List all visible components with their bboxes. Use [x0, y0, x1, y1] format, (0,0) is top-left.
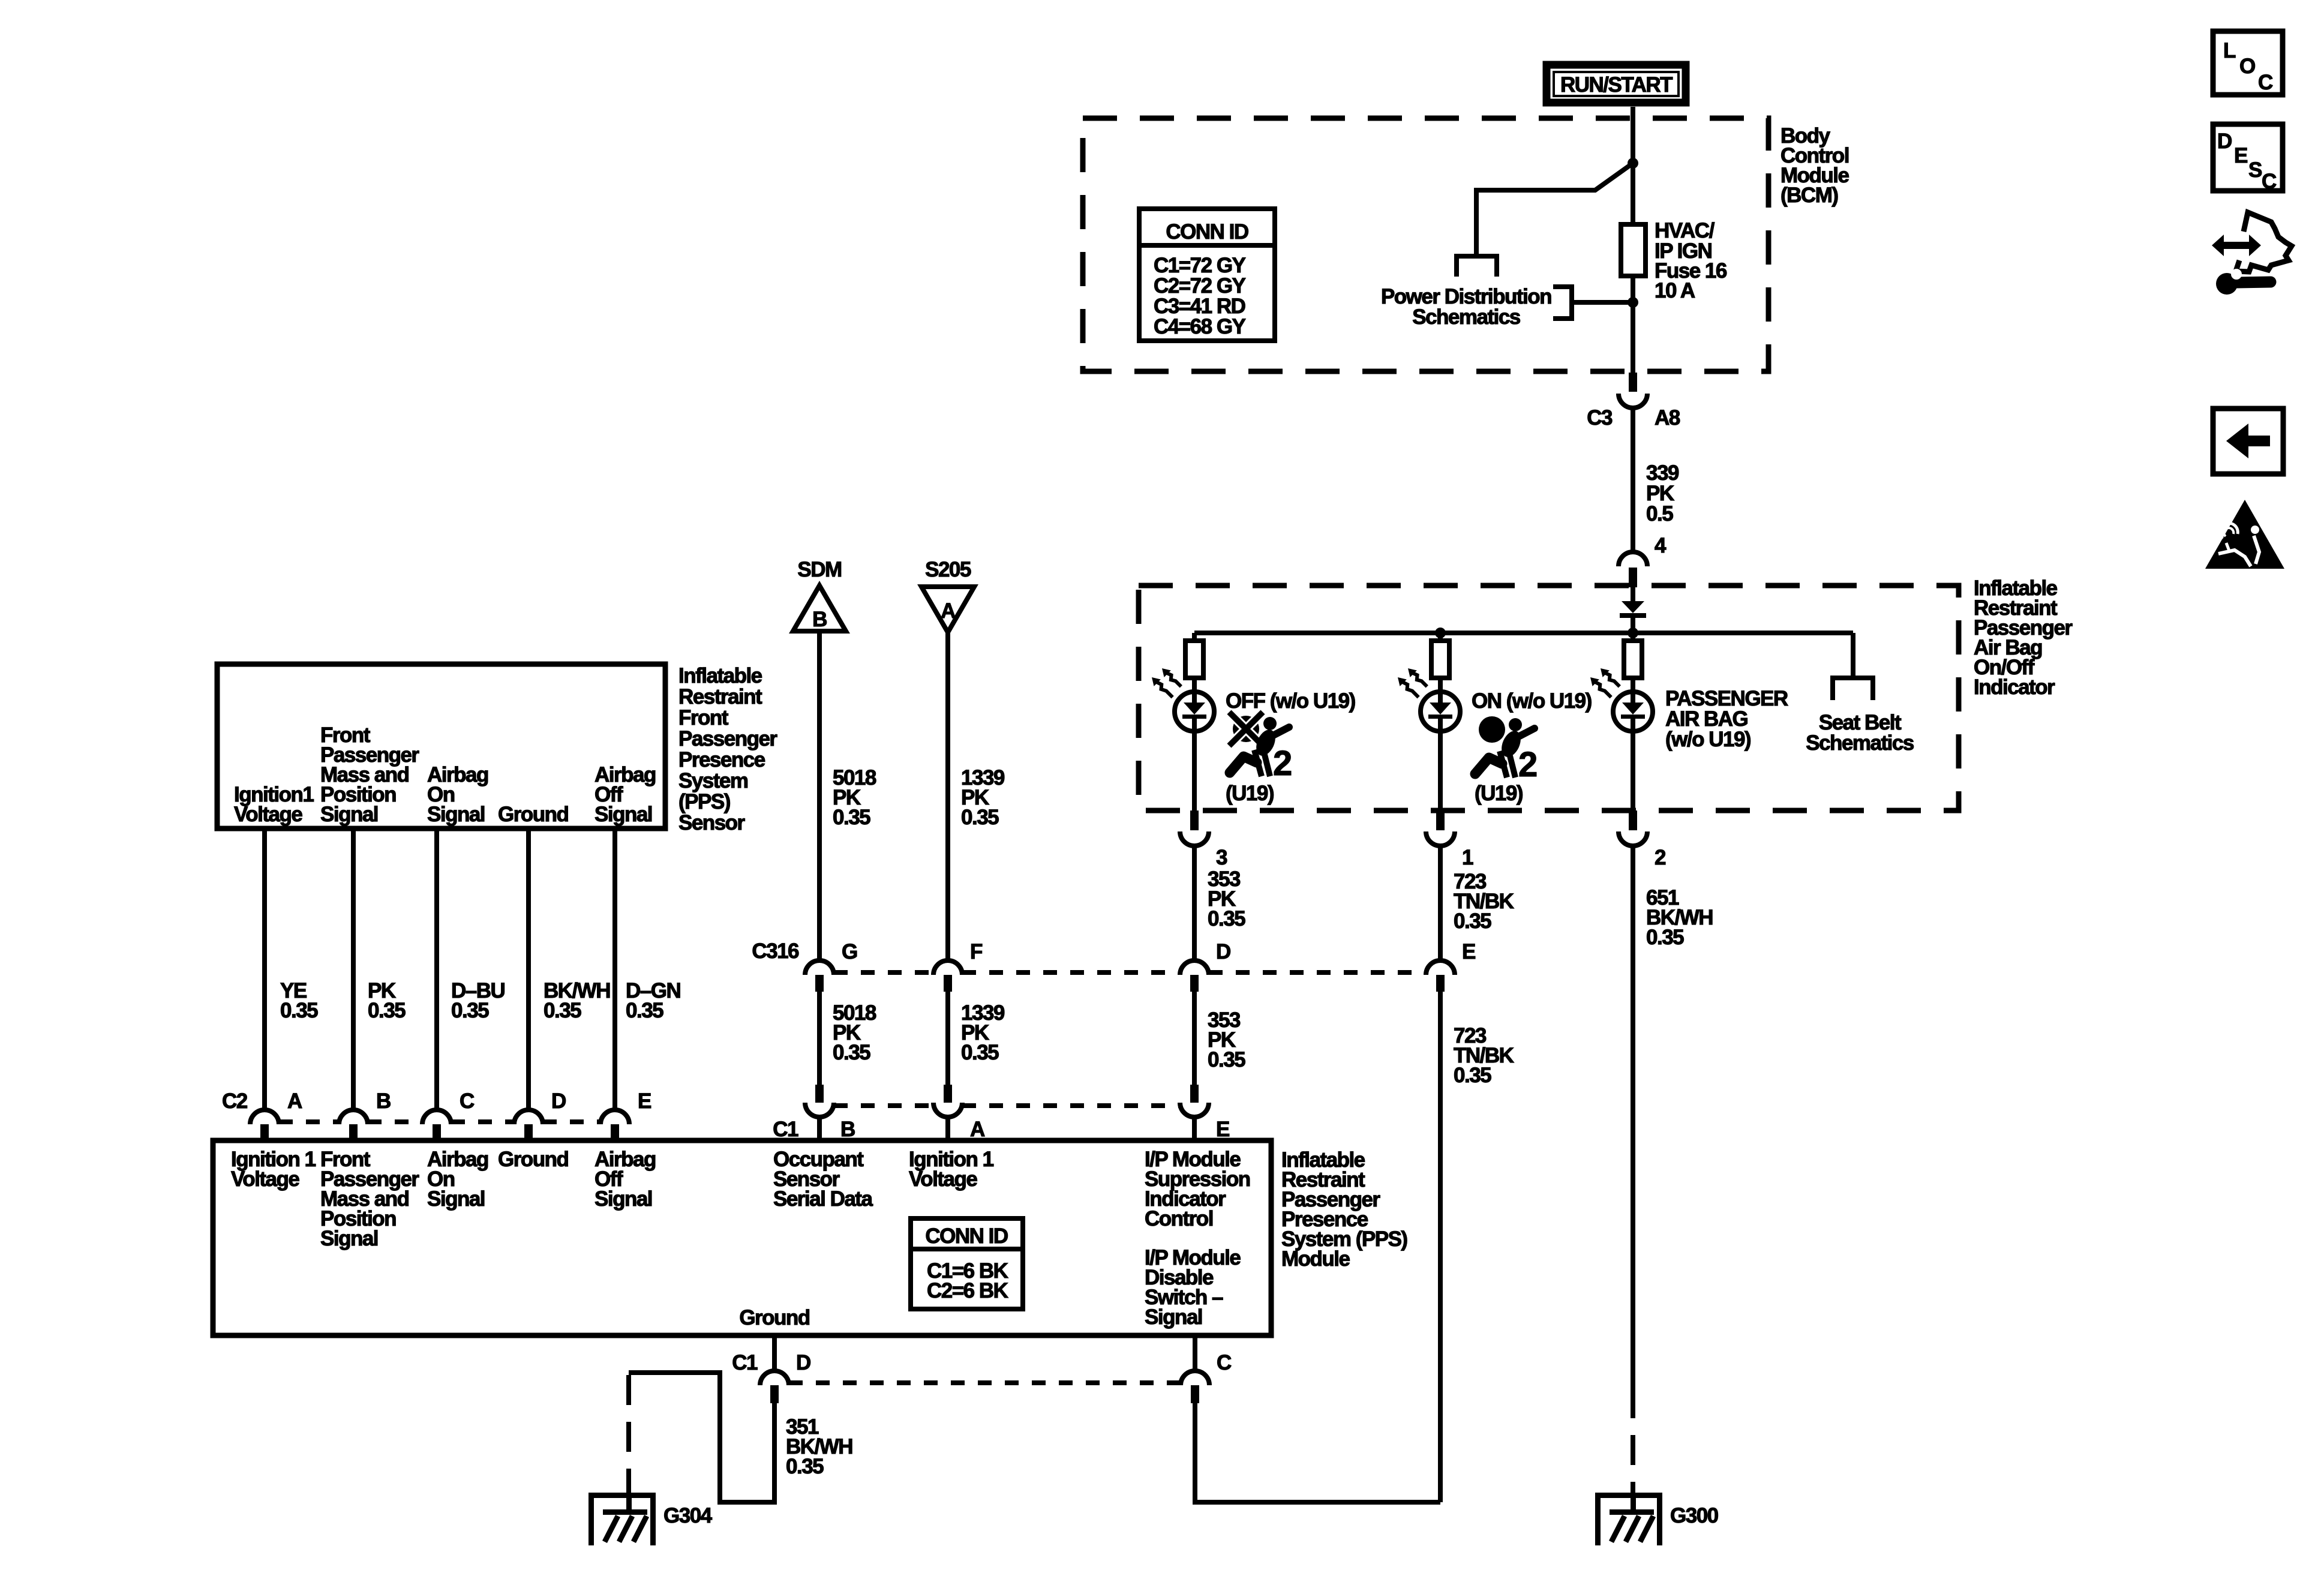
fuse HVAC/IP IGN Fuse 16 [1621, 224, 1646, 276]
connector C1 pin E [1180, 1085, 1229, 1141]
connector pin 3 [1180, 810, 1227, 869]
svg-text:Voltage: Voltage [231, 1167, 299, 1191]
svg-text:Passenger: Passenger [678, 727, 777, 751]
svg-text:0.35: 0.35 [961, 806, 999, 829]
svg-text:C4=68 GY: C4=68 GY [1154, 315, 1246, 338]
svg-text:3: 3 [1216, 846, 1227, 869]
label D-BU 0.35 [451, 979, 505, 1022]
svg-text:OFF (w/o U19): OFF (w/o U19) [1226, 689, 1355, 713]
icon wiring repair arrow [2212, 212, 2292, 272]
connector C316 pin F [933, 940, 983, 992]
svg-text:0.35: 0.35 [786, 1455, 824, 1478]
svg-text:C2: C2 [222, 1089, 248, 1113]
wire 723 TN/BK lower [1438, 992, 1443, 1502]
svg-text:G: G [842, 940, 857, 963]
svg-text:SDM: SDM [797, 558, 841, 581]
label YE 0.35 [280, 979, 318, 1022]
label Inflatable Restraint Front Passenger Presence System (PPS) Sensor [678, 664, 777, 834]
connector C316 pin E [1426, 940, 1475, 992]
wire sensor pin C D-BU [434, 828, 439, 1110]
dashed line C1 row [834, 1103, 1180, 1108]
svg-text:Signal: Signal [427, 803, 485, 826]
connector C2 pin D [514, 1089, 566, 1141]
svg-text:F: F [970, 940, 983, 963]
svg-text:Schematics: Schematics [1412, 305, 1521, 329]
label 5018 PK 0.35 upper [833, 766, 876, 829]
connector C1 pin C [1181, 1351, 1232, 1403]
wire sensor pin D BK/WH [526, 828, 531, 1110]
wire sensor pin A YE [262, 828, 267, 1110]
module pin label Ignition 1 Voltage right [909, 1148, 994, 1191]
svg-text:(PPS): (PPS) [678, 790, 730, 813]
svg-text:0.35: 0.35 [451, 999, 489, 1022]
wire 723 TN/BK upper [1438, 845, 1443, 962]
wire S205 to C316 F [945, 632, 950, 962]
svg-text:Restraint: Restraint [678, 685, 762, 709]
svg-text:C: C [2262, 170, 2277, 193]
label PASSENGER AIR BAG (w/o U19) [1665, 687, 1788, 751]
svg-text:E: E [1462, 940, 1475, 963]
diode CR1 [1620, 587, 1646, 633]
svg-text:(w/o U19): (w/o U19) [1665, 728, 1750, 751]
svg-text:Ground: Ground [739, 1306, 809, 1329]
label 353 PK 0.35 upper [1208, 867, 1245, 930]
wire 339 PK down to connector 4 [1631, 407, 1635, 551]
ground G304 [588, 1493, 713, 1545]
off-page triangle B SDM [793, 586, 846, 631]
label OFF (w/o U19) [1226, 689, 1355, 713]
svg-text:D: D [2217, 130, 2232, 153]
connector pin 2 [1619, 810, 1666, 869]
resistor of ON lamp [1431, 633, 1449, 693]
svg-text:A: A [287, 1089, 302, 1113]
label BK/WH 0.35 [544, 979, 610, 1022]
label Inflatable Restraint Passenger Air Bag On/Off Indicator [1974, 577, 2073, 699]
junction dot bus at PASSENGER branch [1628, 628, 1638, 638]
svg-text:C3: C3 [1587, 406, 1613, 430]
connector C1 pin D ground [732, 1351, 810, 1403]
svg-text:S: S [2248, 158, 2262, 182]
svg-text:Signal: Signal [320, 1227, 378, 1250]
svg-text:0.35: 0.35 [961, 1041, 999, 1064]
resistor of OFF lamp [1185, 633, 1203, 693]
label 723 TN/BK 0.35 upper [1454, 870, 1514, 933]
svg-text:D: D [796, 1351, 810, 1374]
dashed line C316 row [834, 970, 1426, 975]
svg-text:0.35: 0.35 [1208, 907, 1245, 930]
label 723 TN/BK 0.35 lower [1454, 1024, 1514, 1087]
svg-text:0.35: 0.35 [1454, 909, 1491, 933]
label Inflatable Restraint Passenger Presence System (PPS) Module [1281, 1148, 1407, 1271]
wire sensor pin E D-GN [612, 828, 617, 1110]
label 651 BK/WH 0.35 [1646, 886, 1713, 949]
label 339 PK 0.5 [1646, 461, 1679, 526]
svg-text:Ground: Ground [498, 1148, 568, 1171]
svg-text:C316: C316 [752, 939, 799, 963]
wire 353 PK lower [1192, 992, 1197, 1085]
icon airbag ON [1475, 716, 1537, 784]
label D-GN 0.35 [626, 979, 680, 1022]
svg-text:System: System [678, 769, 748, 792]
label Body Control Module (BCM) [1780, 124, 1849, 207]
svg-text:D: D [551, 1089, 566, 1113]
wire fuse to C3 connector [1631, 276, 1635, 373]
icon wrench [2216, 269, 2271, 295]
svg-text:ON (w/o U19): ON (w/o U19) [1472, 689, 1592, 713]
module pin label Ground top [498, 1148, 568, 1171]
svg-text:(U19): (U19) [1226, 782, 1274, 805]
svg-text:0.35: 0.35 [1454, 1064, 1491, 1087]
LED PASSENGER AIR BAG indicator lamp [1613, 692, 1653, 810]
junction dot power distribution tap [1628, 297, 1638, 308]
label fuse HVAC/ IP IGN Fuse 16 10 A [1655, 219, 1727, 302]
svg-text:1: 1 [1462, 846, 1473, 869]
svg-text:CONN ID: CONN ID [1166, 220, 1248, 244]
icon airbag warning triangle [2205, 500, 2284, 569]
connector 4 of indicator [1619, 534, 1667, 587]
module pin label I/P Module Supression Indicator Control [1145, 1148, 1250, 1230]
wire from RUN/START down [1631, 107, 1635, 224]
svg-text:L: L [2223, 39, 2236, 62]
module pin label I/P Module Disable Switch - Signal [1145, 1246, 1241, 1329]
wire C pin to 723 wire [1195, 1403, 1440, 1502]
wire drop to seat belt bracket [1851, 633, 1855, 678]
wire Ground pin to C1 D [772, 1335, 777, 1371]
label S205 [925, 558, 971, 581]
icon DESC box [2213, 124, 2283, 193]
wire I/P disable pin to C1 C [1193, 1335, 1197, 1371]
svg-text:0.35: 0.35 [626, 999, 663, 1022]
LED OFF indicator lamp [1175, 692, 1214, 810]
connector pin 1 [1426, 810, 1473, 869]
sensor pin label Ground [498, 803, 568, 826]
switch blade of BCM ignition relay [1476, 163, 1633, 254]
module pin label Ground bottom [739, 1306, 809, 1329]
sensor pin label Ignition1 Voltage [234, 783, 314, 826]
svg-text:E: E [638, 1089, 651, 1113]
svg-text:Inflatable: Inflatable [678, 664, 762, 688]
svg-text:C2=6 BK: C2=6 BK [927, 1279, 1008, 1302]
svg-text:Voltage: Voltage [234, 803, 302, 826]
off-page bracket Seat Belt [1833, 678, 1873, 700]
icon LOC box [2213, 31, 2283, 95]
PPS Module box [213, 1140, 1271, 1335]
connector C1 pin B [773, 1085, 855, 1141]
ground G300 [1595, 1493, 1719, 1545]
svg-text:0.5: 0.5 [1646, 502, 1673, 526]
wire 351 BK/WH loop to G304 [629, 1373, 774, 1502]
LED arrows PASSENGER [1587, 665, 1622, 701]
power feed box RUN/START [1547, 65, 1686, 103]
svg-text:Control: Control [1145, 1207, 1213, 1230]
label ON (w/o U19) [1472, 689, 1592, 713]
svg-text:Indicator: Indicator [1974, 676, 2055, 699]
svg-text:B: B [376, 1089, 391, 1113]
svg-text:Serial Data: Serial Data [773, 1187, 873, 1211]
connector C2 pin C [422, 1089, 475, 1141]
svg-text:Module: Module [1281, 1247, 1350, 1271]
label 5018 PK 0.35 lower [833, 1001, 876, 1064]
svg-text:Presence: Presence [678, 748, 765, 772]
svg-text:2: 2 [1518, 745, 1537, 784]
svg-text:Voltage: Voltage [909, 1167, 977, 1191]
dashed line C1 bottom row [789, 1380, 1181, 1385]
svg-text:Signal: Signal [1145, 1305, 1202, 1329]
wire 651 BK/WH [1631, 845, 1635, 1388]
label 1339 PK 0.35 upper [961, 766, 1005, 829]
svg-text:G304: G304 [663, 1504, 713, 1527]
svg-text:B: B [840, 1118, 855, 1141]
svg-text:Signal: Signal [427, 1187, 485, 1211]
svg-text:C: C [460, 1089, 475, 1113]
connector C2 pin B [339, 1089, 391, 1141]
svg-text:G300: G300 [1670, 1504, 1719, 1527]
connector C2 pin A [222, 1089, 302, 1141]
CONN ID table BCM [1139, 209, 1275, 341]
connector C3 pin A8 [1587, 373, 1680, 430]
svg-text:Signal: Signal [594, 1187, 652, 1211]
wire 353 PK upper [1192, 845, 1197, 962]
wire 1339 PK lower [945, 992, 950, 1085]
label 1339 PK 0.35 lower [961, 1001, 1005, 1064]
wire sensor pin B PK [351, 828, 356, 1110]
svg-text:O: O [2239, 55, 2255, 78]
CONN ID table module [911, 1218, 1023, 1309]
sensor pin label Airbag On Signal [427, 763, 488, 826]
LED ON indicator lamp [1421, 692, 1460, 810]
svg-text:D: D [1216, 940, 1230, 963]
connector C1 pin A [933, 1085, 985, 1141]
svg-text:0.35: 0.35 [1208, 1048, 1245, 1071]
svg-text:0.35: 0.35 [544, 999, 581, 1022]
module pin label Occupant Sensor Serial Data [773, 1148, 873, 1211]
label Seat Belt Schematics [1806, 711, 1914, 755]
label (U19) ON [1475, 782, 1523, 805]
svg-text:0.35: 0.35 [280, 999, 318, 1022]
svg-text:Schematics: Schematics [1806, 731, 1914, 755]
svg-text:0.35: 0.35 [833, 1041, 870, 1064]
dashed wire down to G300 [1631, 1388, 1635, 1494]
off-page triangle A S205 [921, 587, 974, 632]
Body Control Module dashed box [1083, 118, 1768, 371]
svg-text:E: E [1216, 1118, 1229, 1141]
sensor pin label Front Passenger Mass and Position Signal [320, 724, 419, 826]
svg-text:4: 4 [1655, 534, 1667, 557]
svg-text:A8: A8 [1655, 406, 1680, 430]
svg-text:C: C [1217, 1351, 1232, 1374]
svg-text:C1: C1 [773, 1118, 798, 1141]
svg-text:Sensor: Sensor [678, 811, 746, 834]
wire SDM to C316 G [817, 631, 822, 962]
svg-text:0.35: 0.35 [833, 806, 870, 829]
svg-text:Ground: Ground [498, 803, 568, 826]
svg-text:B: B [812, 608, 827, 631]
svg-text:E: E [2234, 144, 2247, 167]
resistor of PASSENGER lamp [1624, 633, 1642, 693]
connector C2 pin E [600, 1089, 651, 1141]
module pin label Airbag Off Signal [594, 1148, 656, 1211]
svg-text:(U19): (U19) [1475, 782, 1523, 805]
icon back arrow box [2213, 409, 2283, 474]
svg-text:Signal: Signal [594, 803, 652, 826]
svg-text:RUN/START: RUN/START [1560, 73, 1673, 97]
off-page bracket Power Distribution [1553, 287, 1572, 319]
dashed wire down to G304 [626, 1375, 631, 1494]
svg-text:(BCM): (BCM) [1780, 184, 1838, 207]
junction dot bus at ON branch [1435, 628, 1446, 638]
svg-text:C1: C1 [732, 1351, 758, 1374]
module pin label Ignition 1 Voltage [231, 1148, 316, 1191]
svg-text:Front: Front [678, 706, 729, 730]
LED arrows ON [1394, 665, 1430, 701]
PPS Sensor box [217, 664, 665, 828]
label Power Distribution Schematics [1381, 285, 1551, 329]
label SDM [797, 558, 841, 581]
wire to power distribution bracket [1572, 300, 1633, 305]
off-page bracket to ignition switch [1457, 256, 1497, 277]
connector C316 pin D [1180, 940, 1230, 992]
module pin label Airbag On Signal [427, 1148, 488, 1211]
svg-text:2: 2 [1655, 846, 1666, 869]
Inflatable Restraint Passenger Air Bag On/Off Indicator dashed box [1139, 586, 1959, 810]
bus wire inside indicator [1194, 631, 1853, 635]
svg-text:2: 2 [1273, 744, 1292, 783]
LED arrows OFF [1148, 665, 1184, 701]
connector C316 pin G [752, 939, 857, 992]
label (U19) OFF [1226, 782, 1274, 805]
svg-text:C: C [2258, 71, 2273, 94]
svg-text:0.35: 0.35 [368, 999, 406, 1022]
icon airbag crossed OFF [1229, 712, 1292, 783]
svg-text:0.35: 0.35 [1646, 926, 1684, 949]
svg-text:A: A [941, 599, 956, 623]
label 351 BK/WH 0.35 [786, 1415, 852, 1478]
label 353 PK 0.35 lower [1208, 1008, 1245, 1071]
svg-text:10 A: 10 A [1655, 279, 1695, 302]
dashed line C2 row [279, 1119, 600, 1124]
module pin label Front Passenger Mass and Position Signal [320, 1148, 419, 1250]
sensor pin label Airbag Off Signal [594, 763, 656, 826]
junction dot switch node [1628, 158, 1638, 169]
svg-text:CONN ID: CONN ID [925, 1224, 1008, 1248]
svg-text:S205: S205 [925, 558, 971, 581]
svg-text:A: A [970, 1118, 985, 1141]
label PK 0.35 [368, 979, 406, 1022]
svg-text:Signal: Signal [320, 803, 378, 826]
wire 5018 PK lower [817, 992, 822, 1085]
